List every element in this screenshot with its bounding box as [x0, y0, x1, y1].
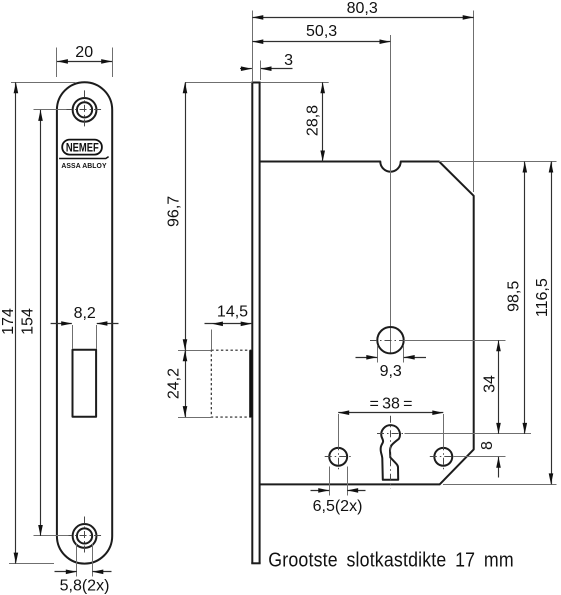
- svg-text:20: 20: [75, 44, 93, 61]
- svg-text:NEMEF: NEMEF: [66, 142, 99, 155]
- svg-text:9,3: 9,3: [380, 363, 402, 380]
- svg-text:5,8(2x): 5,8(2x): [60, 578, 110, 595]
- svg-text:6,5(2x): 6,5(2x): [313, 498, 363, 515]
- svg-text:= 38 =: = 38 =: [370, 396, 413, 413]
- svg-text:14,5: 14,5: [217, 304, 248, 321]
- svg-text:50,3: 50,3: [306, 23, 337, 40]
- svg-text:34: 34: [482, 375, 499, 393]
- svg-text:8,2: 8,2: [74, 305, 96, 322]
- svg-text:24,2: 24,2: [165, 368, 182, 399]
- svg-text:154: 154: [20, 308, 37, 335]
- svg-text:96,7: 96,7: [165, 196, 182, 227]
- svg-text:3: 3: [284, 52, 293, 69]
- svg-text:Grootste slotkastdikte 17 mm: Grootste slotkastdikte 17 mm: [268, 550, 514, 572]
- svg-text:ASSA ABLOY: ASSA ABLOY: [61, 163, 106, 170]
- svg-text:174: 174: [0, 308, 17, 335]
- svg-text:98,5: 98,5: [506, 281, 523, 312]
- svg-text:8: 8: [479, 441, 496, 450]
- svg-text:80,3: 80,3: [347, 0, 378, 17]
- svg-text:116,5: 116,5: [534, 278, 551, 317]
- svg-text:28,8: 28,8: [305, 105, 322, 136]
